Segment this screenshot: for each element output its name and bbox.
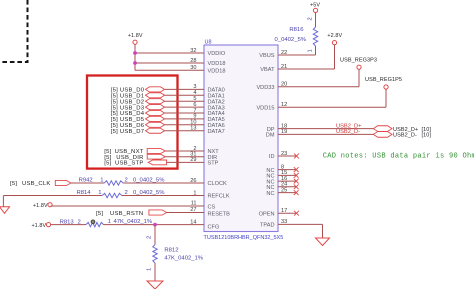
net USB2_D- label [393,133,431,139]
pin numbers right side of U8 [281,50,287,225]
wire USB_REG3P3 to pin 20 VDD33 [278,69,359,87]
svg-text:[5]: [5] [10,181,17,187]
wire USB_D0 to pin DATA0 [165,88,205,90]
svg-text:+1.8V: +1.8V [128,33,143,39]
svg-text:+5V: +5V [310,2,320,8]
wire R814 to pin 1 REFCLK [122,195,204,197]
svg-text:VBUS: VBUS [259,53,275,59]
power +1.8V (CFG pull-up) [31,223,50,230]
svg-text:+2.8V: +2.8V [327,33,342,39]
svg-text:USB_STP: USB_STP [115,161,144,167]
flag USB_NXT [147,149,165,154]
wire +5V to R816 [315,13,317,28]
wire USB_STP [167,161,204,163]
svg-text:REFCLK: REFCLK [208,194,230,200]
svg-text:U8: U8 [205,40,212,46]
R812 pin 1 number [147,268,153,271]
bidirectional flag USB_D7 [146,128,165,133]
net USB_D7 label [111,129,145,135]
wire junction down to R812 [154,225,156,245]
net USB_D6 label [111,123,145,129]
bidirectional flag USB_D2 [146,99,165,104]
wire R942 to pin 26 CLOCK [123,182,204,184]
svg-text:2: 2 [147,236,153,239]
wire USB_D4 to pin DATA4 [165,112,205,114]
bidirectional flag USB_D3 [146,105,165,110]
bidirectional flag USB_D4 [146,110,165,115]
net USB_NXT label [104,149,144,155]
wire to pin 30 VDD18 [135,69,204,71]
junction at VDD18 pin28 [133,61,137,65]
svg-text:2: 2 [308,17,314,20]
bidirectional flag USB2_D- [373,132,392,138]
svg-text:[5]: [5] [111,129,118,135]
svg-text:ID: ID [269,154,275,160]
svg-text:DATA7: DATA7 [208,129,225,135]
resistor R812 47K_0402_1% [153,245,204,263]
no-connect NC pin 24 [278,184,299,189]
net USB_D5 label [111,117,145,123]
wire +2.8V to pin 21 VBAT [278,45,335,69]
svg-text:CAD notes: USB data pair is 90: CAD notes: USB data pair is 90 Ohm. [323,153,474,161]
resistor R814 0_0402_5% [77,190,166,198]
net USB_DIR label [104,155,143,161]
power USB_REG3P3 [340,58,377,70]
net USB_STP label [104,161,143,167]
red highlight box around ULPI data/control nets [87,76,178,169]
svg-text:VDD18: VDD18 [208,68,226,74]
svg-text:USB_REG1P5: USB_REG1P5 [365,77,402,83]
svg-text:OPEN: OPEN [259,211,275,217]
wire DP to flag [278,128,373,130]
ground left [0,207,10,214]
svg-text:STP: STP [208,161,219,167]
svg-text:VBAT: VBAT [260,67,275,73]
net alias USB2_D+ on wire [336,123,362,129]
no-connect NC pin 25 [278,190,299,195]
no-connect NC pin 16 [278,179,299,184]
svg-text:1: 1 [147,268,153,271]
junction at VDDIO [133,51,137,55]
svg-text:CFG: CFG [208,225,220,231]
ground below R812 [147,281,163,289]
svg-text:VDD18: VDD18 [208,61,226,67]
net USB_RSTN label [96,211,143,217]
junction CFG / R812 [153,223,157,227]
wire USB_D6 to pin DATA6 [165,124,205,126]
bidirectional flag USB_D6 [146,122,165,127]
svg-text:RESETB: RESETB [208,212,231,218]
svg-text:CS: CS [208,205,216,211]
wire +1.8V vertical rail [134,44,136,70]
IC U8 TUSB1210BRHBR_QFN32_5X5 [204,40,284,242]
svg-text:TUSB1210BRHBR_QFN32_5X5: TUSB1210BRHBR_QFN32_5X5 [204,235,284,241]
no-connect pin 23 ID [278,154,299,159]
wire R812 to ground [154,263,156,281]
flag USB_DIR [147,154,165,159]
wire USB_D1 to pin DATA1 [165,94,205,96]
power +1.8V (CS pull-up) [33,203,52,209]
net USB2_D+ label [393,127,431,133]
resistor R942 0_0402_5% [79,177,166,185]
svg-text:R816: R816 [289,27,304,33]
svg-text:0_0402_5%: 0_0402_5% [275,37,307,43]
resistor R816 0_0402_5% [275,27,318,46]
svg-text:CLOCK: CLOCK [208,181,228,187]
svg-text:VDD15: VDD15 [256,106,274,112]
sheet boundary dashed corner [0,0,28,62]
bidirectional flag USB2_D+ [373,126,392,132]
svg-text:R813: R813 [60,220,75,226]
wire to pin 28 VDD18 [135,62,204,64]
svg-text:VDDIO: VDDIO [208,51,226,57]
no-connect NC pin 8 [278,167,299,172]
wire USB_D2 to pin DATA2 [165,100,205,102]
power +5V [310,2,320,12]
power +1.8V (VDDIO/VDD18) [128,33,143,45]
wire +1.8V to R813 [51,224,86,226]
svg-text:DM: DM [266,133,275,139]
no-connect pin 17 OPEN [278,211,299,216]
bidirectional flag USB_D5 [146,116,165,121]
CAD note text [323,153,474,161]
net USB_D0 label [111,88,145,94]
wire R813 to pin 14 CFG [104,224,205,226]
svg-text:27: 27 [190,207,196,213]
wire USB_CLK to R942 [71,182,104,184]
svg-text:USB_REG3P3: USB_REG3P3 [340,58,377,64]
flag USB_STP [148,160,166,165]
svg-text:1: 1 [100,177,103,183]
net USB_D2 label [111,99,145,105]
bidirectional flag USB_D0 [146,87,165,92]
net USB_D1 label [111,94,145,100]
svg-text:+1.8V: +1.8V [31,223,46,229]
wire USB_RSTN to pin 27 RESETB [167,212,204,214]
R816 pin 2 number [308,17,314,20]
svg-text:R814: R814 [77,190,92,196]
R812 pin 2 number [147,236,153,239]
wire DM to flag [278,133,373,135]
wire USB_D7 to pin DATA7 [165,130,205,132]
wire to pin 32 VDDIO [135,52,204,54]
svg-text:USB_CLK: USB_CLK [22,181,51,187]
wire pin 33 TPAD to ground [278,224,323,238]
wire USB_DIR [165,156,204,158]
svg-text:R812: R812 [164,248,178,254]
R816 pin 1 number [308,49,314,52]
wire +1.8V to pin 11 CS [51,205,204,207]
svg-text:USB_RSTN: USB_RSTN [110,211,143,217]
svg-text:2: 2 [78,220,81,226]
svg-text:1: 1 [308,49,314,52]
svg-text:R942: R942 [79,177,93,183]
svg-text:47K_0402_1%: 47K_0402_1% [164,255,203,261]
resistor R813 47K_0402_1% with variant dot [60,219,153,227]
svg-text:TPAD: TPAD [260,223,275,229]
svg-text:[5]: [5] [104,161,111,167]
pin numbers left side of U8 [190,48,196,226]
net USB_CLK label [10,181,51,187]
power +2.8V [327,33,342,45]
wire ground to R814 [3,196,102,207]
svg-text:+1.8V: +1.8V [33,203,48,209]
svg-text:1: 1 [98,190,101,196]
net alias USB2_D- on wire [336,129,360,135]
svg-text:NC: NC [266,191,274,197]
wire USB_D5 to pin DATA5 [165,118,205,120]
flag USB_CLK [55,180,71,185]
svg-text:USB_D7: USB_D7 [120,129,144,135]
svg-text:USB2_D-: USB2_D- [393,133,417,139]
net USB_D3 label [111,105,145,111]
no-connect NC pin 15 [278,173,299,178]
ground at TPAD [316,238,330,246]
wire USB_NXT [165,150,204,152]
svg-text:USB2_D-: USB2_D- [336,129,360,135]
svg-text:VDD33: VDD33 [256,85,274,91]
power USB_REG1P5 [365,77,402,89]
wire R816 to pin 22 VBUS [278,46,316,55]
svg-text:[5]: [5] [96,211,103,217]
flag USB_RSTN [149,210,167,215]
wire USB_REG1P5 to pin 12 VDD15 [278,89,386,107]
wire USB_D3 to pin DATA3 [165,106,205,108]
svg-text:[10]: [10] [422,133,432,139]
bidirectional flag USB_D1 [146,93,165,98]
net USB_D4 label [111,111,145,117]
